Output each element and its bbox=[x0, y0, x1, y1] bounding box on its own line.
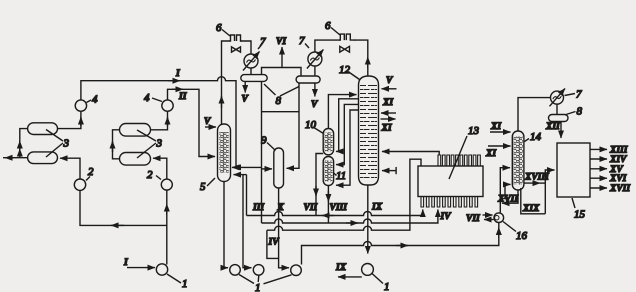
svg-text:XI: XI bbox=[381, 124, 392, 134]
column 12 (main fractionator) bbox=[339, 64, 379, 185]
valve (below arrester 6a) bbox=[232, 47, 241, 52]
cooler 4 (first unit) bbox=[75, 94, 98, 112]
wire: line I across top with hop over column 5 riser bbox=[81, 69, 236, 167]
column 5 (packed absorber) bbox=[200, 124, 231, 193]
heat exchanger 2 (second unit) bbox=[147, 169, 172, 190]
wire: bus line 2 (stream IV to furnace 13) bbox=[262, 210, 452, 224]
svg-text:XIV: XIV bbox=[609, 155, 627, 165]
wire: blower 16 discharge into column 14 bbox=[500, 168, 510, 213]
wire: column 12 side return b to column 11 top bbox=[336, 104, 359, 164]
svg-text:8: 8 bbox=[276, 95, 282, 107]
wire: first unit top drum to cooler 4a bbox=[58, 112, 81, 129]
svg-text:12: 12 bbox=[339, 64, 351, 76]
wire: drum 8a leg down (stream III line) bbox=[261, 81, 263, 223]
stream XIII arrow bbox=[590, 146, 628, 156]
stream V arrow into column 5 top bbox=[204, 117, 216, 127]
stream V arrow into column 12 top right bbox=[382, 76, 397, 89]
wire: column 5 bottoms to pump bbox=[224, 182, 228, 268]
label 3 (first unit) bbox=[46, 130, 70, 158]
svg-text:XVII: XVII bbox=[497, 195, 518, 205]
svg-text:XI: XI bbox=[490, 122, 501, 132]
svg-text:IX: IX bbox=[335, 263, 347, 273]
column 11 (lower packed section) bbox=[323, 157, 346, 186]
svg-text:IV: IV bbox=[440, 212, 452, 222]
condenser 7 (third) bbox=[550, 89, 583, 107]
svg-text:8: 8 bbox=[577, 106, 583, 118]
stream XIV arrow bbox=[590, 155, 627, 165]
stream XI arrows at column 12 right bbox=[381, 98, 397, 134]
svg-text:1: 1 bbox=[255, 282, 261, 292]
heat exchanger 2 (first unit) bbox=[74, 166, 94, 190]
svg-text:6: 6 bbox=[216, 22, 222, 34]
wire: return from furnace 13 into column 12 bbox=[382, 152, 439, 156]
stream IX product arrow from pump bbox=[335, 263, 362, 277]
pump 1 (column 12 bottoms) bbox=[362, 264, 390, 292]
svg-text:V: V bbox=[311, 100, 318, 110]
wire: separator 9 bottoms, stream X down to pump bbox=[277, 188, 290, 268]
wire: second unit left leg bbox=[113, 130, 120, 159]
stream VI arrow up bbox=[276, 37, 286, 68]
cooler 4 (second unit) bbox=[144, 92, 173, 111]
pump 1 (under column 5) bbox=[230, 265, 241, 276]
wire: column 5 overhead riser to arrester 6a bbox=[222, 41, 231, 124]
wire: condenser 7c to drum 8c bbox=[556, 104, 558, 114]
svg-text:III: III bbox=[252, 203, 264, 213]
svg-text:V: V bbox=[242, 95, 249, 105]
svg-text:XI: XI bbox=[382, 98, 393, 108]
drum 8 (first reflux drum) bbox=[241, 75, 267, 82]
svg-text:I: I bbox=[175, 69, 180, 79]
wire: arrester 6a to condenser 7a bbox=[241, 41, 252, 54]
svg-text:VIII: VIII bbox=[330, 203, 348, 213]
svg-text:II: II bbox=[178, 92, 187, 102]
wire: feed arrows into column 5 right side bbox=[234, 167, 273, 174]
svg-text:3: 3 bbox=[156, 138, 163, 150]
label 8 with leaders (first pair of drums) bbox=[264, 84, 299, 107]
stream V arrow below drum 8a bbox=[242, 81, 249, 104]
svg-text:1: 1 bbox=[182, 278, 188, 290]
wire: drum 8b leg down to separator 9 bbox=[287, 83, 300, 168]
condenser 7 (first) bbox=[243, 36, 266, 71]
drum 3 (first unit, upper) bbox=[28, 123, 58, 135]
svg-text:16: 16 bbox=[516, 230, 528, 242]
valve (below arrester 6b) bbox=[340, 46, 350, 52]
svg-text:I: I bbox=[123, 258, 128, 268]
wire: bus line 4 (pump 1c discharge to blower 16) bbox=[302, 223, 499, 265]
svg-text:VII: VII bbox=[466, 214, 480, 224]
wire: exchanger 2b to drum 3b bottom bbox=[153, 158, 167, 179]
svg-text:10: 10 bbox=[305, 119, 317, 131]
stream XI arrows into column 14 bbox=[485, 122, 511, 159]
wire: stream XVIII from column 14 to block 15 bbox=[524, 170, 555, 214]
furnace block 13 bbox=[418, 125, 483, 207]
svg-text:13: 13 bbox=[468, 125, 480, 137]
wire: bus line 1 (to column 5 reflux / from furnace) bbox=[247, 210, 423, 216]
drum 8 (third) bbox=[549, 106, 583, 122]
wire: column 12 side return c to column 11 bottom bbox=[336, 110, 359, 185]
svg-text:4: 4 bbox=[92, 94, 98, 106]
svg-text:14: 14 bbox=[530, 131, 542, 143]
drum 3 (first unit, lower) bbox=[28, 152, 58, 164]
stream XVII arrow out of block 15 bbox=[590, 184, 630, 194]
svg-text:11: 11 bbox=[336, 170, 346, 182]
stream XVI arrow bbox=[590, 174, 627, 184]
wire: vapor header between drums 8a and 8b bbox=[262, 68, 302, 77]
svg-text:V: V bbox=[204, 117, 211, 127]
svg-text:VI: VI bbox=[276, 37, 286, 47]
wire: condenser 7b to drum 8b bbox=[314, 66, 316, 76]
svg-text:XII: XII bbox=[545, 122, 560, 132]
wire: verticals from column 5 side lines down to pumps bbox=[243, 175, 252, 268]
wire: stream XVII from column 14 bottoms bbox=[497, 190, 518, 205]
wire: bus line 3 (to furnace 13 left side) bbox=[267, 159, 421, 258]
svg-text:VII: VII bbox=[304, 203, 318, 213]
label 3 (second unit) bbox=[137, 130, 163, 158]
wire: pump 1 riser to exchanger 2b bbox=[166, 190, 168, 264]
svg-text:IV: IV bbox=[268, 238, 280, 248]
separator 9 bbox=[261, 135, 284, 189]
wire: column 10 overhead to column 12 bbox=[328, 95, 356, 129]
wire: column 12 overhead to arrester 6b to condenser 7b bbox=[315, 40, 368, 76]
wire: stream II from cooler 4b down to column 5 bbox=[168, 89, 216, 156]
svg-text:XVII: XVII bbox=[609, 184, 630, 194]
wire: column 12 side return a to junction 10/11 bbox=[336, 99, 359, 152]
svg-text:1: 1 bbox=[384, 281, 390, 292]
svg-text:7: 7 bbox=[576, 89, 582, 101]
wire: stub arrow into column 12 lower right bbox=[382, 167, 396, 174]
svg-text:XIX: XIX bbox=[522, 204, 540, 214]
svg-text:4: 4 bbox=[144, 92, 150, 104]
svg-text:2: 2 bbox=[147, 169, 153, 181]
svg-text:6: 6 bbox=[325, 20, 331, 32]
drum 3 (second unit, upper) bbox=[120, 124, 151, 137]
flame arrester 6 (first) bbox=[216, 22, 242, 41]
wire: stream VII side draw from columns 10/11 junction bbox=[304, 154, 324, 216]
drum 8 (second reflux drum) bbox=[296, 76, 320, 83]
condenser 7 (second) bbox=[299, 35, 323, 69]
pump 1 (middle) bbox=[253, 265, 264, 276]
stream XII arrow from drum 8c into block 15 bbox=[545, 122, 561, 139]
svg-text:9: 9 bbox=[261, 135, 267, 147]
svg-text:5: 5 bbox=[200, 181, 206, 193]
stream V arrow below drum 8b bbox=[311, 83, 318, 110]
label 1 for pumps group bbox=[239, 275, 292, 292]
svg-text:2: 2 bbox=[88, 166, 94, 178]
column 10 (upper packed section) bbox=[305, 119, 334, 155]
wire: condenser 7a to drum 8a bbox=[250, 68, 252, 75]
block 15 bbox=[557, 143, 590, 221]
wire: small recycle into column 14 bottom bbox=[500, 184, 510, 198]
pump 1 (feed pump, bottom left) bbox=[156, 264, 187, 290]
wire: exchanger 2a to drum 3a bottom bbox=[60, 158, 80, 179]
wire: first unit left leg with product arrow bbox=[3, 129, 28, 158]
pump 1 (under separator 9) bbox=[291, 265, 302, 276]
wire: stream XIX loop bbox=[521, 188, 546, 214]
gas blower 16 bbox=[466, 213, 528, 242]
svg-text:IX: IX bbox=[371, 203, 383, 213]
svg-text:3: 3 bbox=[63, 138, 70, 150]
wire: branch to first unit bbox=[80, 191, 167, 226]
drum 3 (second unit, lower) bbox=[120, 153, 151, 166]
wire: second unit top drum to cooler 4b bbox=[151, 112, 168, 130]
wire: cross tie between drum legs bbox=[262, 111, 300, 113]
svg-text:V: V bbox=[386, 76, 393, 86]
stream I feed arrow bbox=[123, 258, 155, 268]
svg-text:7: 7 bbox=[260, 36, 266, 48]
wire: stream VIII from column 11 bottoms bbox=[328, 186, 347, 224]
wire: column 12 bottoms stream IX down to pump bbox=[368, 185, 383, 254]
svg-text:XIII: XIII bbox=[609, 146, 628, 156]
stream XV arrow bbox=[590, 165, 623, 175]
svg-text:XI: XI bbox=[485, 149, 496, 159]
svg-text:XVI: XVI bbox=[609, 174, 627, 184]
svg-text:7: 7 bbox=[299, 35, 305, 47]
wire: column 14 overhead to condenser 7c bbox=[518, 98, 550, 131]
column 14 (packed) bbox=[512, 131, 541, 190]
svg-text:15: 15 bbox=[574, 209, 586, 221]
flame arrester 6 (second) bbox=[325, 20, 355, 40]
